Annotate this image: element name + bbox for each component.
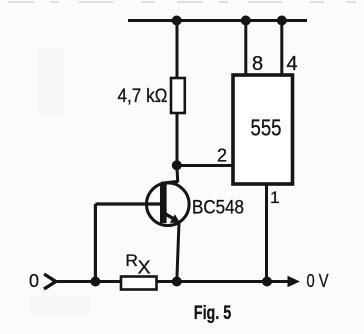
wire: top supply rail	[128, 19, 307, 22]
wire: emitter to ground rail	[177, 223, 179, 282]
wire: resistor bottom to node 2	[176, 112, 179, 166]
svg-text:8: 8	[252, 53, 263, 75]
junction: emitter / rail	[172, 277, 182, 287]
resistor RX body	[121, 277, 157, 290]
junction: base loop / rail	[90, 277, 100, 287]
junction: pin 1 / rail	[262, 277, 272, 287]
wire: base loop down to rail	[94, 204, 97, 282]
svg-text:X: X	[138, 257, 151, 277]
wire: node to collector	[177, 165, 178, 183]
svg-text:1: 1	[270, 188, 279, 207]
wire: pin 8 to rail	[244, 21, 247, 75]
terminal: input chevron	[44, 274, 56, 289]
IC U1 555 box	[233, 75, 293, 184]
junction: top rail / resistor branch	[172, 16, 182, 26]
label: resistor RX	[125, 251, 150, 277]
svg-text:R: R	[125, 251, 138, 270]
svg-text:BC548: BC548	[192, 197, 244, 219]
svg-text:0 V: 0 V	[307, 271, 329, 291]
svg-text:555: 555	[251, 115, 282, 141]
wire: pin 2 to node	[177, 164, 233, 167]
wire: rail to resistor top	[176, 21, 179, 79]
svg-text:Fig. 5: Fig. 5	[194, 302, 232, 324]
svg-text:4,7 kΩ: 4,7 kΩ	[118, 86, 168, 107]
junction: node at pin 2 / collector	[172, 160, 182, 170]
transistor Q1 BC548	[95, 182, 189, 226]
svg-text:4: 4	[286, 53, 297, 75]
terminal: 0 V arrow	[288, 276, 301, 287]
resistor 4,7 kOhm body	[171, 78, 185, 113]
junction: top rail / pin 8	[241, 16, 251, 26]
svg-text:2: 2	[217, 146, 227, 166]
wire: pin 4 to rail	[280, 21, 283, 75]
wire: bottom ground rail	[53, 280, 290, 283]
svg-text:0: 0	[29, 271, 39, 291]
wire: pin 1 to ground rail	[265, 185, 268, 282]
junction: top rail / pin 4	[277, 16, 287, 26]
